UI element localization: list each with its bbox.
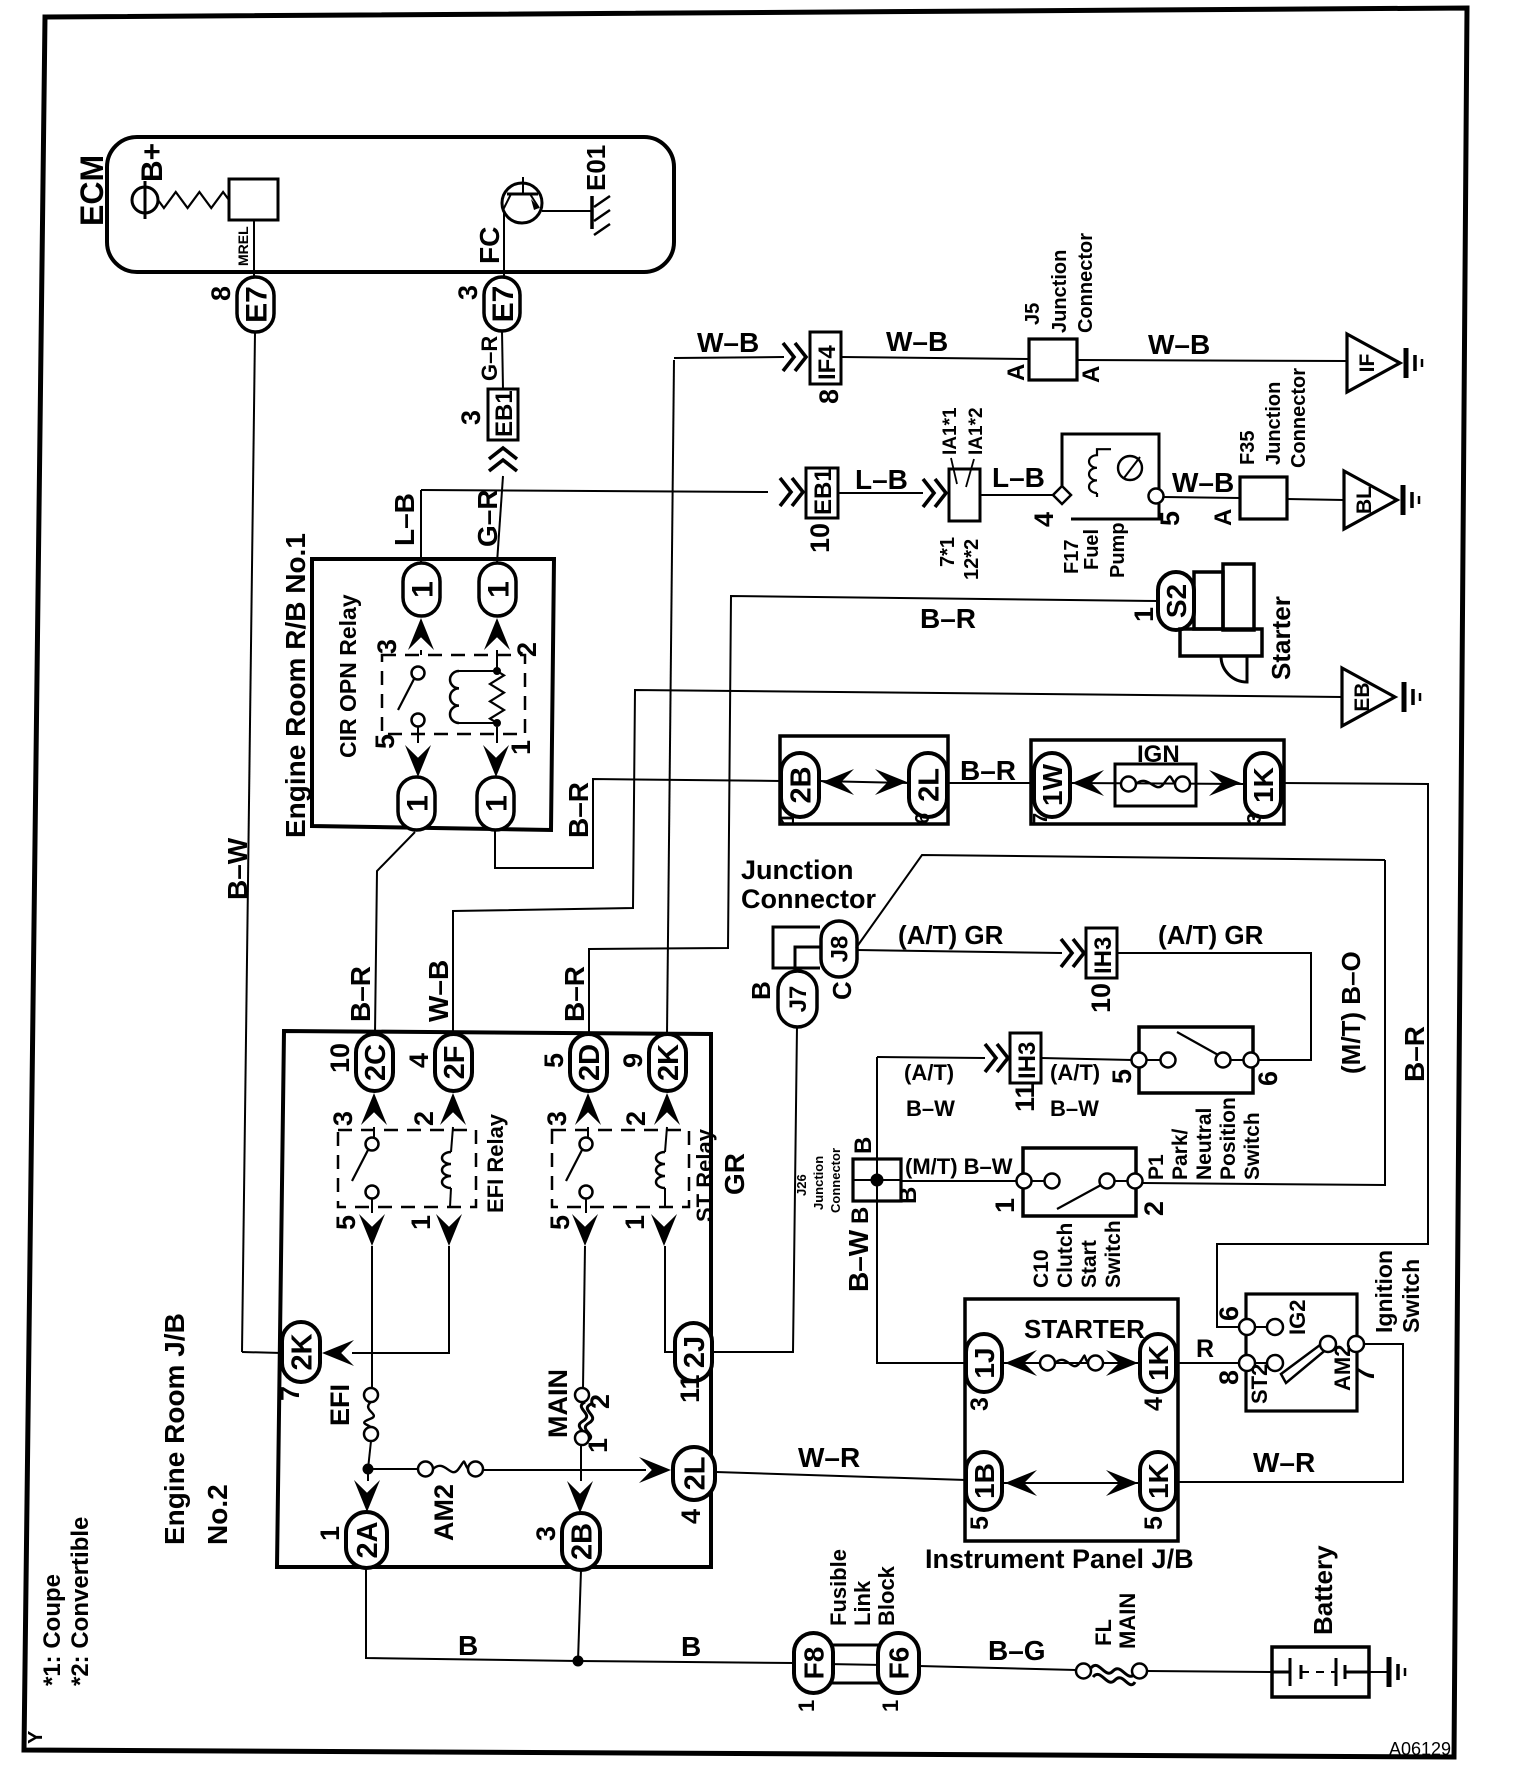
ground triangle BL (BL ground) bbox=[1344, 471, 1397, 529]
svg-text:7: 7 bbox=[1030, 813, 1052, 824]
AM2 fuse bbox=[368, 1468, 418, 1470]
svg-text:1: 1 bbox=[620, 1215, 650, 1230]
wire MREL to E7 bbox=[253, 220, 255, 278]
connector J7 bbox=[778, 971, 817, 1027]
fuel pump pin 5 bbox=[1149, 489, 1164, 504]
connector EB1 pin 3 bbox=[488, 389, 518, 440]
wire A/T B-W bbox=[877, 1057, 985, 1058]
svg-text:10: 10 bbox=[325, 1043, 355, 1073]
svg-text:Connector: Connector bbox=[741, 884, 876, 914]
starter body bbox=[1194, 572, 1223, 629]
connector IF4 pin 8 bbox=[810, 332, 841, 384]
connector S2 bbox=[1158, 572, 1194, 630]
svg-text:EFI: EFI bbox=[325, 1384, 355, 1426]
svg-text:1: 1 bbox=[406, 1215, 436, 1230]
svg-text:Y: Y bbox=[25, 1730, 47, 1744]
wire L-B up from relay bbox=[420, 490, 422, 563]
junction connector J26 box bbox=[853, 1159, 901, 1201]
svg-text:F17: F17 bbox=[1061, 540, 1083, 574]
connector pin 1 (CIR OPN top-left) bbox=[403, 563, 440, 616]
wire B-R to starter S2 bbox=[589, 596, 1158, 1035]
junction connector F35 box bbox=[1240, 477, 1287, 519]
wire W-R ign pin7 to 1K5 bbox=[1176, 1344, 1403, 1482]
pin 6 circle and IG2 bbox=[1239, 1319, 1255, 1335]
svg-text:ST2: ST2 bbox=[1247, 1364, 1272, 1404]
connector 2K pin 7 bbox=[282, 1322, 320, 1382]
svg-text:11: 11 bbox=[675, 1374, 705, 1403]
svg-text:Junction: Junction bbox=[1263, 382, 1285, 465]
svg-text:EB: EB bbox=[1351, 682, 1374, 711]
svg-text:Connector: Connector bbox=[828, 1148, 843, 1213]
svg-text:1: 1 bbox=[583, 1438, 613, 1453]
chevron arrows into IH3-10 bbox=[1061, 939, 1084, 967]
connector 2A bbox=[346, 1512, 387, 1568]
fusible link block F8/F6 bbox=[826, 1645, 884, 1683]
svg-text:3: 3 bbox=[372, 639, 402, 654]
svg-text:Park/: Park/ bbox=[1169, 1128, 1192, 1180]
svg-text:4: 4 bbox=[1029, 512, 1059, 527]
svg-text:Junction: Junction bbox=[741, 855, 854, 885]
Ignition Switch box bbox=[1246, 1294, 1357, 1411]
svg-text:2D: 2D bbox=[574, 1044, 606, 1081]
svg-text:ST Relay: ST Relay bbox=[692, 1128, 717, 1222]
svg-text:Clutch: Clutch bbox=[1054, 1223, 1077, 1288]
connector 2C bbox=[356, 1034, 393, 1091]
svg-text:2J: 2J bbox=[679, 1336, 711, 1368]
svg-text:FL: FL bbox=[1091, 1619, 1116, 1646]
wire W-B vertical (2K-9 to top) bbox=[667, 360, 674, 1034]
svg-text:11: 11 bbox=[1010, 1083, 1040, 1112]
svg-text:(A/T): (A/T) bbox=[904, 1060, 954, 1085]
svg-text:B–R: B–R bbox=[345, 966, 376, 1022]
svg-text:1: 1 bbox=[1129, 607, 1159, 622]
svg-text:L–B: L–B bbox=[855, 464, 908, 495]
svg-text:1W: 1W bbox=[1037, 763, 1068, 806]
wire GR from 2J to J7 bbox=[712, 1026, 797, 1352]
svg-text:5: 5 bbox=[1140, 1516, 1168, 1530]
svg-text:MAIN: MAIN bbox=[543, 1369, 573, 1438]
arrow left (1J) bbox=[1005, 1350, 1037, 1376]
svg-text:FC: FC bbox=[474, 227, 505, 264]
connector EB1 pin 10 bbox=[806, 468, 838, 518]
arrow right (2L) bbox=[875, 769, 907, 795]
wire F35 to BL ground bbox=[1287, 499, 1344, 500]
svg-text:A06129: A06129 bbox=[1389, 1739, 1451, 1759]
arrow left (2B) bbox=[822, 769, 854, 795]
svg-text:IG2: IG2 bbox=[1285, 1300, 1310, 1335]
svg-text:10: 10 bbox=[1086, 983, 1116, 1013]
connector pin 1 (CIR OPN top-right) bbox=[479, 563, 516, 616]
svg-text:*2: Convertible: *2: Convertible bbox=[67, 1517, 94, 1686]
svg-text:W–B: W–B bbox=[886, 326, 948, 357]
pin 8 circle and ST2 bbox=[1239, 1355, 1255, 1371]
svg-text:2A: 2A bbox=[352, 1521, 384, 1558]
fusible link FL MAIN bbox=[1076, 1664, 1091, 1679]
svg-text:*1: Coupe: *1: Coupe bbox=[39, 1574, 66, 1686]
svg-text:W–B: W–B bbox=[1148, 329, 1210, 360]
wire 1K4 to ignition ST2 bbox=[1176, 1362, 1240, 1364]
EFI relay coil bbox=[451, 1127, 453, 1152]
battery bbox=[1272, 1658, 1369, 1686]
arrow up to top-left oval bbox=[420, 650, 422, 655]
connector 2L pin 4 bbox=[673, 1447, 715, 1500]
CIR OPN Relay dashed box bbox=[382, 655, 525, 734]
svg-text:3: 3 bbox=[456, 410, 486, 425]
connector 2K pin 9 bbox=[649, 1034, 686, 1091]
arrow up (2K9) bbox=[654, 1093, 680, 1125]
svg-text:(M/T) B–O: (M/T) B–O bbox=[1336, 951, 1366, 1074]
connector pin 1 (CIR OPN bottom-right) bbox=[477, 777, 514, 830]
connector IA1 bbox=[949, 469, 980, 521]
svg-text:3: 3 bbox=[328, 1111, 358, 1126]
svg-text:1: 1 bbox=[506, 740, 536, 755]
wire EFI switch down bbox=[371, 1246, 373, 1388]
chevron arrows into IF4 bbox=[783, 343, 806, 371]
svg-text:B: B bbox=[895, 1187, 922, 1204]
ground bars IF bbox=[1404, 348, 1409, 378]
svg-text:1B: 1B bbox=[969, 1463, 1000, 1499]
svg-text:6: 6 bbox=[1253, 1071, 1283, 1086]
svg-text:A: A bbox=[1003, 364, 1030, 381]
svg-text:2: 2 bbox=[409, 1111, 439, 1126]
svg-text:B–R: B–R bbox=[559, 966, 590, 1022]
svg-text:W–R: W–R bbox=[798, 1442, 860, 1473]
arrow down (EFI switch) bbox=[371, 1199, 373, 1213]
ground bars BL bbox=[1401, 485, 1406, 515]
svg-text:6: 6 bbox=[912, 813, 934, 824]
arrow up (2C) bbox=[361, 1093, 387, 1125]
connector 1K (IGN) bbox=[1245, 753, 1281, 817]
svg-text:EB1: EB1 bbox=[491, 390, 518, 437]
svg-text:C10: C10 bbox=[1030, 1249, 1053, 1288]
wire diagonal J8 to M/T line bbox=[856, 855, 1385, 948]
svg-text:2L: 2L bbox=[913, 768, 945, 802]
Engine Room R/B No.1 box bbox=[312, 559, 554, 830]
wire J5 to IF ground bbox=[1077, 360, 1347, 361]
svg-text:(A/T): (A/T) bbox=[1050, 1060, 1100, 1085]
svg-text:B–W: B–W bbox=[1050, 1096, 1099, 1121]
svg-text:12*2: 12*2 bbox=[961, 539, 983, 580]
connector E7 pin 8 bbox=[237, 277, 274, 332]
wire A/T GR from J8 bbox=[857, 950, 1062, 953]
svg-text:A: A bbox=[1210, 509, 1237, 526]
svg-text:IF: IF bbox=[1356, 354, 1379, 373]
svg-text:2: 2 bbox=[1139, 1201, 1169, 1216]
svg-text:Start: Start bbox=[1078, 1240, 1101, 1288]
arrow left (2K7) bbox=[322, 1340, 354, 1366]
svg-text:1J: 1J bbox=[969, 1347, 1000, 1378]
svg-text:W–B: W–B bbox=[697, 327, 759, 358]
connector 1J bbox=[966, 1334, 1002, 1392]
svg-text:STARTER: STARTER bbox=[1024, 1314, 1145, 1344]
svg-text:2L: 2L bbox=[679, 1457, 711, 1491]
svg-text:(A/T) GR: (A/T) GR bbox=[1158, 920, 1264, 950]
svg-text:2C: 2C bbox=[360, 1044, 392, 1081]
P/N switch contacts bbox=[1132, 1053, 1147, 1068]
arrow up (2F) bbox=[440, 1093, 466, 1125]
svg-text:8: 8 bbox=[1214, 1370, 1244, 1385]
svg-text:Battery: Battery bbox=[1308, 1545, 1338, 1635]
Instrument Panel J/B box bbox=[965, 1299, 1178, 1541]
EFI Relay dashed box bbox=[338, 1130, 476, 1207]
svg-text:Link: Link bbox=[850, 1580, 875, 1626]
wire ST coil to 2J bbox=[665, 1246, 675, 1352]
svg-text:IA1*2: IA1*2 bbox=[966, 407, 987, 455]
fuse element IGN bbox=[1121, 777, 1136, 792]
svg-text:E7: E7 bbox=[487, 286, 520, 323]
svg-text:E7: E7 bbox=[240, 286, 273, 323]
svg-text:W–R: W–R bbox=[1253, 1447, 1315, 1478]
svg-text:B–W: B–W bbox=[906, 1096, 955, 1121]
chevron arrows into EB1 bbox=[489, 448, 517, 471]
connector 2B bbox=[781, 753, 819, 817]
svg-text:B+: B+ bbox=[136, 143, 169, 182]
svg-text:1K: 1K bbox=[1248, 767, 1279, 803]
chevron arrows into IH3-11 bbox=[985, 1044, 1008, 1072]
svg-text:3: 3 bbox=[1244, 813, 1266, 824]
ECM block outline bbox=[107, 137, 674, 272]
svg-text:Junction: Junction bbox=[1049, 250, 1071, 333]
svg-text:4: 4 bbox=[1140, 1397, 1168, 1411]
wire W-B from 2F to EB ground bbox=[453, 690, 1342, 1033]
svg-text:R: R bbox=[1196, 1335, 1214, 1363]
B+ terminal bbox=[132, 187, 158, 213]
connector 2B pin 3 bbox=[562, 1513, 600, 1570]
svg-text:1: 1 bbox=[990, 1198, 1020, 1213]
wire AM2 to 2L bbox=[483, 1469, 646, 1471]
svg-text:5: 5 bbox=[539, 1053, 569, 1068]
wire B-W into 2K7 bbox=[242, 1352, 282, 1353]
wire W-R 2L to 1B bbox=[716, 1472, 966, 1480]
svg-text:6: 6 bbox=[1214, 1306, 1244, 1321]
fuse element STARTER bbox=[1040, 1356, 1055, 1371]
svg-text:2K: 2K bbox=[286, 1333, 318, 1370]
svg-text:Connector: Connector bbox=[1075, 233, 1097, 333]
wire IH3 to P/N switch pin 6 bbox=[1117, 953, 1311, 1060]
svg-text:IGN: IGN bbox=[1137, 741, 1180, 768]
wire FL MAIN to battery bbox=[1147, 1671, 1272, 1672]
wire ST switch down bbox=[583, 1246, 585, 1388]
ST relay coil bbox=[665, 1127, 667, 1152]
ST Relay dashed box bbox=[552, 1130, 689, 1207]
svg-text:2: 2 bbox=[512, 642, 542, 657]
svg-text:IH3: IH3 bbox=[1014, 1042, 1041, 1079]
svg-text:1: 1 bbox=[315, 1526, 345, 1541]
wire M/T vertical down to clutch switch bbox=[1136, 860, 1385, 1185]
svg-text:S2: S2 bbox=[1161, 584, 1192, 618]
transistor FC inside ECM bbox=[502, 183, 542, 223]
svg-text:4: 4 bbox=[676, 1509, 706, 1524]
wire B-W from MREL down left side bbox=[242, 332, 255, 1352]
connector pin 1 (CIR OPN bottom-left) bbox=[398, 777, 435, 830]
svg-text:W–B: W–B bbox=[1172, 467, 1234, 498]
svg-text:2B: 2B bbox=[566, 1523, 598, 1560]
svg-text:3: 3 bbox=[966, 1397, 994, 1411]
svg-text:2B: 2B bbox=[785, 766, 817, 803]
ground E01 symbol bbox=[590, 196, 594, 229]
svg-text:E01: E01 bbox=[581, 145, 611, 191]
connector 2L bbox=[909, 753, 947, 817]
wire IA1 to fuel pump bbox=[980, 494, 1054, 496]
svg-text:B–R: B–R bbox=[960, 755, 1016, 786]
wire from 2B down bbox=[578, 1570, 581, 1661]
svg-text:F35: F35 bbox=[1237, 431, 1259, 465]
svg-text:B–R: B–R bbox=[563, 782, 594, 838]
connector 1K pin 4 bbox=[1140, 1334, 1176, 1392]
wire 2L to 1W bbox=[948, 782, 1035, 784]
svg-text:J5: J5 bbox=[1022, 303, 1044, 325]
fuel pump F17 body bbox=[1062, 434, 1159, 519]
svg-text:J7: J7 bbox=[785, 986, 812, 1013]
J26 junction dot bbox=[871, 1174, 883, 1186]
svg-text:L–B: L–B bbox=[389, 493, 420, 546]
IGN fuse box bbox=[1031, 740, 1284, 824]
arrow down (EFI coil) bbox=[436, 1214, 462, 1246]
connector 2J bbox=[675, 1323, 712, 1381]
connector E7 pin 3 bbox=[484, 277, 520, 331]
chevron arrows into IA1 bbox=[923, 479, 946, 507]
svg-text:B: B bbox=[850, 1137, 877, 1154]
svg-text:Pump: Pump bbox=[1107, 522, 1129, 578]
svg-text:5: 5 bbox=[1155, 511, 1185, 526]
arrow right (1K bottom) bbox=[1106, 1470, 1138, 1496]
arrow right (1K top) bbox=[1106, 1350, 1138, 1376]
svg-text:2F: 2F bbox=[439, 1046, 471, 1080]
connector 2F bbox=[435, 1034, 472, 1091]
Park/Neutral Position Switch box bbox=[1139, 1027, 1253, 1093]
svg-text:3: 3 bbox=[453, 285, 483, 300]
pump impeller bbox=[1118, 456, 1142, 480]
svg-text:B: B bbox=[681, 1631, 701, 1662]
svg-text:1: 1 bbox=[794, 1700, 819, 1712]
ST relay switch bbox=[587, 1127, 589, 1138]
svg-text:F8: F8 bbox=[799, 1647, 830, 1680]
connector 1K pin 5 bbox=[1140, 1452, 1176, 1510]
wire IH3-11 to P/N pin 5 bbox=[1041, 1058, 1132, 1060]
wire F6 to FL MAIN bbox=[919, 1666, 1076, 1670]
svg-text:A: A bbox=[1078, 366, 1105, 383]
svg-text:9: 9 bbox=[618, 1053, 648, 1068]
svg-text:Switch: Switch bbox=[1398, 1259, 1424, 1333]
arrow down (ST coil) bbox=[651, 1214, 677, 1246]
wire M/T B-W to clutch switch bbox=[901, 1180, 1017, 1182]
svg-text:J8: J8 bbox=[827, 936, 854, 963]
svg-text:(A/T) GR: (A/T) GR bbox=[898, 920, 1004, 950]
svg-text:B–G: B–G bbox=[988, 1635, 1046, 1666]
ignition key lever bbox=[1281, 1342, 1328, 1383]
wire IF4 to J5 bbox=[841, 357, 1029, 359]
ground triangle EB (EB ground) bbox=[1342, 668, 1395, 726]
connector 1B bbox=[966, 1452, 1002, 1510]
connector 2D bbox=[570, 1034, 607, 1091]
connector IH3 pin 10 bbox=[1086, 928, 1117, 978]
svg-text:BL: BL bbox=[1353, 486, 1376, 514]
C10 Clutch Start Switch box bbox=[1023, 1148, 1136, 1216]
fuel pump pin 4 node bbox=[1053, 486, 1071, 504]
svg-text:Instrument Panel J/B: Instrument Panel J/B bbox=[925, 1544, 1194, 1574]
svg-text:Switch: Switch bbox=[1102, 1220, 1125, 1288]
svg-text:1: 1 bbox=[480, 795, 513, 812]
svg-text:1: 1 bbox=[878, 1700, 903, 1712]
arrow down (ST switch) bbox=[585, 1199, 587, 1213]
svg-text:B–W: B–W bbox=[222, 837, 253, 900]
svg-text:MREL: MREL bbox=[235, 226, 251, 266]
svg-text:Starter: Starter bbox=[1266, 596, 1296, 680]
svg-text:CIR OPN Relay: CIR OPN Relay bbox=[335, 594, 361, 758]
svg-text:IF4: IF4 bbox=[814, 345, 841, 380]
svg-text:7*1: 7*1 bbox=[937, 537, 959, 567]
junction connector J5 box bbox=[1029, 339, 1077, 380]
svg-text:1K: 1K bbox=[1143, 1345, 1174, 1381]
resistor inside ECM bbox=[158, 192, 229, 208]
svg-text:1: 1 bbox=[482, 581, 515, 598]
svg-text:EB1: EB1 bbox=[810, 468, 837, 515]
svg-text:ECM: ECM bbox=[74, 155, 110, 226]
arrow right (2L) bbox=[639, 1457, 671, 1483]
IGN fuse rect bbox=[1115, 764, 1196, 806]
svg-text:3: 3 bbox=[531, 1526, 561, 1541]
svg-text:G–R: G–R bbox=[477, 336, 502, 381]
svg-text:L–B: L–B bbox=[992, 462, 1045, 493]
AM2 contacts bbox=[1320, 1336, 1336, 1352]
svg-text:1: 1 bbox=[401, 795, 434, 812]
svg-text:(M/T) B–W: (M/T) B–W bbox=[905, 1154, 1013, 1179]
arrow down into 2B bbox=[580, 1445, 582, 1481]
wire EFI coil to 2K-7 bbox=[352, 1246, 449, 1353]
svg-text:4: 4 bbox=[404, 1053, 434, 1068]
wire CIR OPN bottom-right to 2B bbox=[495, 779, 781, 868]
svg-text:5: 5 bbox=[1107, 1069, 1137, 1084]
wire to junction bbox=[368, 1441, 371, 1469]
svg-text:10: 10 bbox=[805, 523, 835, 553]
svg-text:C: C bbox=[827, 981, 857, 1000]
arrow right (1K) bbox=[1209, 770, 1241, 796]
junction dot (EFI/AM2) bbox=[363, 1464, 373, 1474]
wire B-W vertical to 1J bbox=[877, 1057, 966, 1363]
wire EB1 to IA1 bbox=[838, 492, 923, 494]
chevron arrows into EB1-10 bbox=[780, 478, 803, 506]
wire G-R down to CIR OPN relay bbox=[497, 476, 503, 563]
wire L-B horizontal to EB1-10 bbox=[421, 490, 768, 492]
svg-text:B–R: B–R bbox=[1399, 1026, 1430, 1082]
wire battery to ground bbox=[1369, 1671, 1389, 1673]
svg-text:5: 5 bbox=[370, 734, 400, 749]
svg-text:B: B bbox=[458, 1630, 478, 1661]
svg-text:Position: Position bbox=[1217, 1097, 1240, 1180]
svg-text:1: 1 bbox=[406, 581, 439, 598]
connector F6 bbox=[878, 1633, 919, 1693]
svg-text:B: B bbox=[746, 981, 776, 1000]
svg-text:Junction: Junction bbox=[811, 1156, 826, 1210]
connector J8 bbox=[821, 921, 857, 977]
svg-text:B–R: B–R bbox=[920, 603, 976, 634]
wire pump to F35 bbox=[1163, 497, 1240, 498]
ground triangle IF (IF ground) bbox=[1347, 334, 1400, 392]
svg-text:No.2: No.2 bbox=[202, 1484, 233, 1545]
wire B from 2A down bbox=[366, 1568, 578, 1661]
svg-text:8: 8 bbox=[814, 389, 844, 404]
svg-text:3: 3 bbox=[542, 1111, 572, 1126]
svg-text:G–R: G–R bbox=[472, 489, 503, 547]
svg-text:Engine Room J/B: Engine Room J/B bbox=[159, 1313, 190, 1545]
svg-text:8: 8 bbox=[206, 286, 236, 301]
fuse element EFI bbox=[364, 1388, 378, 1402]
wire G-R E7 to EB1 bbox=[502, 331, 503, 389]
svg-text:Fusible: Fusible bbox=[826, 1549, 851, 1626]
svg-text:IH3: IH3 bbox=[1090, 937, 1117, 974]
svg-text:5: 5 bbox=[545, 1215, 575, 1230]
pump motor coil bbox=[1089, 449, 1111, 493]
